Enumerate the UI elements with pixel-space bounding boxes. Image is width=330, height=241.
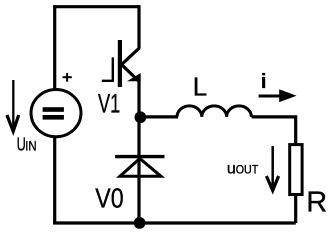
transistor V1 emitter diagonal [121, 64, 139, 82]
wire left vertical lower [53, 137, 56, 225]
svg-text:i: i [261, 71, 267, 93]
plus sign [63, 73, 72, 82]
current i arrowhead [279, 89, 296, 102]
voltage source UIN circle [31, 90, 81, 137]
wire diode branch vertical [137, 117, 140, 223]
transistor V1 emitter lead [137, 79, 140, 117]
diode V0 cathode bar [115, 155, 164, 158]
transistor V1 body bar [118, 40, 122, 87]
voltage source = top bar [43, 107, 64, 112]
transistor V1 gate bar [112, 57, 114, 80]
transistor V1 gate lead [102, 80, 114, 82]
svg-text:R: R [306, 187, 327, 219]
voltage source = bottom bar [43, 115, 64, 120]
transistor V1 collector diagonal [121, 48, 140, 66]
UIN current direction arrow [7, 80, 19, 131]
svg-text:u: u [227, 161, 236, 178]
inductor L windings [177, 106, 251, 117]
resistor R body [290, 145, 302, 195]
diode V0 triangle [120, 159, 161, 177]
wire inductor to right corner, down to resistor [252, 117, 296, 145]
svg-text:V0: V0 [95, 182, 123, 213]
wire top horizontal [53, 5, 140, 8]
transistor V1 collector lead [137, 5, 140, 48]
wire bottom horizontal [53, 221, 296, 224]
current i arrow [259, 95, 280, 98]
svg-text:IN: IN [25, 138, 36, 154]
node B (bottom junction dot) [134, 217, 146, 229]
uOUT voltage arrow [266, 146, 278, 191]
wire node1 to inductor [139, 115, 178, 118]
svg-text:OUT: OUT [236, 163, 259, 177]
wire left vertical upper [53, 5, 56, 89]
svg-text:V1: V1 [98, 88, 120, 118]
transistor V1 emitter arrowhead [129, 74, 141, 81]
node A (switch node junction dot) [135, 111, 147, 123]
wire resistor bottom to bottom wire [294, 194, 297, 223]
svg-text:L: L [193, 72, 207, 102]
